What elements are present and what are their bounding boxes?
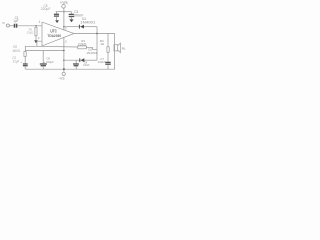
pin 3 wire bbox=[63, 37, 65, 69]
wire R3 to output drop bbox=[86, 47, 97, 49]
svg-text:TDA2030: TDA2030 bbox=[47, 33, 61, 38]
wire C7 to rail bbox=[107, 64, 109, 69]
speaker RL wire bbox=[114, 34, 116, 70]
capacitor C3 100nF bbox=[70, 12, 72, 14]
capacitor C7 220nF bbox=[105, 61, 110, 63]
wire +Vs rail bbox=[56, 11, 72, 13]
svg-text:220µF: 220µF bbox=[46, 60, 54, 64]
ground arrow below R1 bbox=[34, 40, 38, 43]
capacitor C4 100nF bbox=[75, 60, 77, 64]
svg-text:22kΩ: 22kΩ bbox=[27, 30, 34, 34]
resistor R4 1 ohm bbox=[107, 47, 109, 52]
resistor R1 22k bbox=[35, 26, 37, 28]
svg-text:1N4001: 1N4001 bbox=[86, 51, 97, 55]
ground arrow below C5 bbox=[55, 20, 59, 23]
svg-text:220nF: 220nF bbox=[98, 60, 106, 64]
-Vs supply terminal bbox=[63, 69, 65, 72]
wire output drop bbox=[96, 27, 98, 61]
feedback wire pin2 to R3 bbox=[37, 45, 78, 48]
resistor R3 22k feedback bbox=[78, 46, 87, 49]
wire D1 to output drop bbox=[84, 26, 97, 28]
diode D2 1N4001 bbox=[79, 58, 81, 62]
node long line junction bbox=[63, 50, 64, 51]
wire R1 to ground bbox=[35, 36, 37, 41]
capacitor C2 22uF bbox=[23, 63, 28, 65]
svg-text:680Ω: 680Ω bbox=[13, 49, 21, 53]
wire ground rail bbox=[25, 68, 115, 70]
wire D2 to output drop bbox=[84, 59, 97, 61]
wire C1 to pin 1 bbox=[17, 25, 42, 27]
svg-text:1: 1 bbox=[39, 20, 41, 24]
wire output row bbox=[74, 33, 115, 35]
resistor R2 680 bbox=[24, 52, 26, 57]
svg-text:1N4001: 1N4001 bbox=[80, 20, 95, 24]
wire long node line bbox=[25, 50, 64, 52]
svg-text:220µF: 220µF bbox=[41, 7, 51, 11]
wire C2 to rail bbox=[24, 66, 26, 69]
wire D1 bbox=[64, 26, 79, 28]
node D1 junction bbox=[63, 26, 64, 27]
ground arrow below C3 bbox=[69, 19, 73, 22]
wire input terminal to C1 bbox=[9, 25, 14, 27]
zobel wire from output row bbox=[107, 34, 109, 47]
wire D2 bbox=[64, 59, 80, 61]
svg-text:22kΩ: 22kΩ bbox=[78, 42, 87, 46]
svg-text:22µF: 22µF bbox=[13, 59, 20, 63]
node input junction bbox=[35, 25, 36, 26]
svg-text:1µF: 1µF bbox=[13, 19, 18, 23]
svg-text:+: + bbox=[43, 60, 45, 64]
capacitor C5 220uF bbox=[55, 12, 57, 14]
svg-text:-Vs: -Vs bbox=[58, 77, 65, 81]
pin 5 wire bbox=[63, 12, 65, 31]
op-amp U1 UTC TDA2030 bbox=[42, 22, 74, 46]
svg-text:2: 2 bbox=[38, 36, 40, 40]
svg-text:100nF: 100nF bbox=[83, 63, 90, 67]
capacitor C1 1uF bbox=[14, 24, 16, 28]
diode D1 1N4001 bbox=[78, 25, 80, 29]
pin 2 wire bbox=[37, 41, 42, 46]
capacitor C6 220uF bbox=[42, 51, 44, 64]
node -Vs junction bbox=[63, 68, 65, 70]
node output junction bbox=[96, 33, 97, 34]
svg-text:RL: RL bbox=[122, 46, 126, 50]
node D2 junction bbox=[63, 60, 64, 61]
svg-text:3: 3 bbox=[65, 40, 67, 44]
wire pin2 node to R2 bbox=[25, 46, 37, 51]
svg-text:VI: VI bbox=[2, 21, 5, 25]
wire R2 to C2 bbox=[24, 56, 26, 63]
node V1 input terminal bbox=[6, 24, 9, 27]
wire R4 to C7 bbox=[107, 52, 109, 62]
speaker RL bbox=[114, 45, 118, 51]
